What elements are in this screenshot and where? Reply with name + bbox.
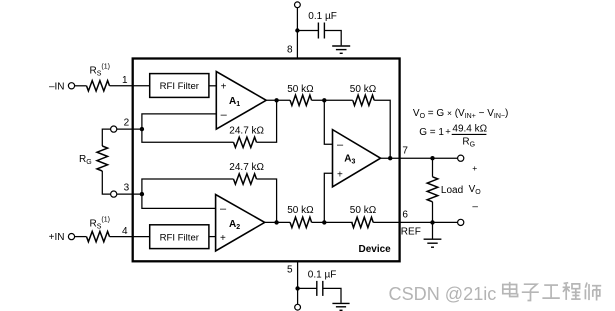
wire node2 down to feedback R5: [142, 129, 234, 142]
svg-text:+: +: [221, 82, 227, 93]
svg-text:–: –: [221, 109, 228, 121]
op-amp A1: [216, 72, 266, 130]
svg-text:–IN: –IN: [49, 81, 65, 92]
junction A2 out: [274, 220, 278, 224]
svg-text:0.1 µF: 0.1 µF: [308, 269, 337, 280]
wire RS1 to RFI1 (pin 1): [110, 85, 150, 87]
svg-text:+: +: [220, 233, 226, 244]
svg-text:Load: Load: [441, 185, 463, 196]
RFI filter block 2: [150, 225, 209, 249]
svg-text:49.4 kΩ: 49.4 kΩ: [452, 123, 487, 134]
terminal VO out: [458, 155, 464, 161]
svg-text:3: 3: [124, 183, 130, 194]
wire pin2 to node: [117, 128, 142, 130]
svg-text:2: 2: [124, 118, 130, 129]
resistor R1 50k (top left): [290, 95, 312, 105]
svg-text:50 kΩ: 50 kΩ: [287, 205, 314, 216]
junction A3 inverting node: [322, 98, 326, 102]
svg-text:+IN: +IN: [49, 232, 65, 243]
junction node pin3: [140, 192, 144, 196]
svg-text:–: –: [220, 203, 227, 215]
wire cap C2 right lead: [323, 288, 341, 303]
watermark glyph cheng: [563, 283, 581, 300]
wire pin3 to node: [117, 193, 142, 195]
wire load top lead: [432, 158, 434, 177]
terminal pin3 (RG bottom): [111, 191, 117, 197]
junction pin8/cap: [295, 28, 299, 32]
terminal -IN: [68, 83, 74, 89]
junction A3 noninverting node: [322, 220, 326, 224]
resistor Load: [427, 177, 438, 202]
wire R3 to node A3+: [312, 221, 353, 223]
wire cap C1 left lead: [297, 30, 318, 32]
resistor RS1: [87, 81, 110, 91]
wire R5 to A1 output node: [257, 100, 277, 142]
equation G = 1 + 49.4k/RG: [419, 123, 487, 148]
svg-text:+: +: [445, 127, 451, 138]
svg-text:RFI Filter: RFI Filter: [160, 232, 200, 243]
resistor RG: [97, 146, 108, 171]
wire pin8 vertical: [296, 8, 298, 59]
svg-text:4: 4: [122, 226, 128, 237]
ground (top cap): [332, 46, 350, 53]
wire node2 to A1 inverting input: [142, 114, 216, 129]
wire R2 to A3 output (feedback): [374, 100, 390, 158]
wire cap C2 left lead: [298, 287, 317, 289]
resistor R3 50k (bottom left): [290, 217, 312, 227]
svg-text:G = 1: G = 1: [419, 127, 444, 138]
terminal V+ (top): [295, 2, 301, 8]
wire RFI1 to A1 + input: [209, 85, 216, 87]
svg-text:–: –: [472, 201, 478, 212]
wire RS2 to RFI2 (pin 4): [110, 236, 150, 238]
svg-text:7: 7: [402, 146, 408, 157]
wire RG bottom loop: [102, 171, 110, 194]
svg-text:RFI Filter: RFI Filter: [160, 81, 200, 92]
wire +IN to RS2: [75, 236, 87, 238]
device outline box: [133, 59, 400, 262]
resistor R6 24.7k (A2 feedback): [234, 174, 257, 184]
capacitor C1 0.1uF (top): [318, 23, 324, 39]
wire A2 output: [265, 221, 291, 223]
svg-text:1: 1: [122, 75, 128, 86]
terminal pin2 (RG top): [111, 126, 117, 132]
terminal V- (bottom): [295, 304, 301, 310]
svg-text:50 kΩ: 50 kΩ: [287, 84, 314, 95]
wire R4 to REF terminal (pin 6): [373, 221, 457, 223]
wire RG top loop: [102, 129, 110, 146]
junction node pin2: [140, 127, 144, 131]
svg-text:24.7 kΩ: 24.7 kΩ: [229, 162, 264, 173]
resistor R4 50k (bottom right, to REF): [352, 217, 373, 227]
junction pin5/cap: [295, 286, 299, 290]
wire node to A3 + input: [324, 173, 332, 222]
svg-text:CSDN @21ic: CSDN @21ic: [389, 284, 497, 304]
watermark glyph dian: [503, 282, 518, 297]
svg-text:0.1 µF: 0.1 µF: [308, 11, 337, 22]
op-amp A3: [333, 130, 381, 187]
wire node3 up to feedback R6: [142, 179, 234, 194]
svg-text:+: +: [337, 169, 343, 180]
svg-text:5: 5: [287, 265, 293, 276]
wire load bottom lead: [432, 202, 434, 223]
svg-text:REF: REF: [401, 227, 421, 238]
resistor RS2: [87, 231, 110, 241]
wire node to A3 inverting input: [324, 100, 332, 144]
terminal REF: [458, 219, 464, 225]
wire R1 to node A3-: [312, 99, 353, 101]
junction load bottom / REF: [430, 220, 434, 224]
op-amp A2: [216, 195, 265, 252]
wire RFI2 to A2 + input: [209, 236, 216, 238]
junction load top: [430, 156, 434, 160]
wire -IN to RS1: [75, 85, 87, 87]
ground (REF): [424, 239, 442, 247]
wire REF ground lead: [432, 222, 434, 239]
wire cap C1 right lead: [324, 31, 341, 46]
svg-text:–: –: [337, 139, 344, 151]
svg-text:50 kΩ: 50 kΩ: [350, 84, 377, 95]
svg-text:6: 6: [402, 210, 408, 221]
watermark glyph shi: [585, 283, 601, 301]
resistor R5 24.7k (A1 feedback): [234, 137, 257, 147]
junction A1 out: [274, 98, 278, 102]
watermark glyph zi: [522, 284, 539, 300]
svg-text:+: +: [472, 163, 477, 173]
wire A1 output: [266, 99, 290, 101]
junction A3 out / feedback: [388, 156, 392, 160]
svg-text:8: 8: [287, 44, 293, 55]
ground (bottom cap): [332, 303, 349, 310]
watermark glyph gong: [542, 285, 559, 298]
wire node3 to A2 inverting input: [142, 194, 216, 208]
svg-text:50 kΩ: 50 kΩ: [350, 205, 377, 216]
capacitor C2 0.1uF (bottom): [317, 281, 323, 296]
terminal +IN: [68, 234, 74, 240]
svg-text:Device: Device: [359, 244, 392, 255]
wire R6 to A2 output node: [257, 179, 277, 222]
wire pin5 vertical: [297, 261, 299, 304]
wire A3 output to VO terminal (pin 7): [381, 157, 458, 159]
resistor R2 50k (top feedback): [353, 95, 374, 105]
svg-text:24.7 kΩ: 24.7 kΩ: [229, 125, 264, 136]
RFI filter block 1: [150, 74, 209, 98]
